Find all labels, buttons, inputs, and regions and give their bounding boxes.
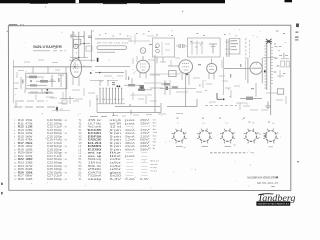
svg-text:25uFp: 25uFp	[54, 130, 63, 132]
svg-text:4 l B a L 8 a 3: 4 l B a L 8 a 3	[96, 99, 126, 101]
svg-text:100np: 100np	[54, 123, 63, 125]
knob P1 pointer	[176, 145, 183, 147]
left margin registration ticks	[1, 183, 2, 185]
svg-text:Omk: Omk	[153, 132, 158, 134]
knob P5 pointer wedge	[263, 134, 266, 138]
svg-text:½W: ½W	[63, 170, 67, 174]
svg-text:-: -	[125, 176, 137, 178]
IF transformer T1 box	[153, 38, 175, 57]
svg-text:2mA: 2mA	[125, 145, 135, 148]
svg-text:½W: ½W	[63, 157, 67, 161]
svg-text:V5: V5	[79, 143, 83, 145]
svg-text:47nFp: 47nFp	[54, 140, 63, 142]
capacitor C9 (dark)	[140, 85, 145, 91]
junction node dark	[90, 72, 92, 74]
svg-text:Mrk: Mrk	[153, 141, 157, 144]
speck above frame	[182, 11, 183, 12]
svg-text:9mA: 9mA	[125, 135, 135, 138]
tube V4 pins	[208, 73, 210, 79]
svg-text:20mA: 20mA	[125, 129, 135, 132]
svg-text:V3: V3	[79, 136, 83, 138]
resistor R13	[138, 89, 145, 91]
svg-text:500pp: 500pp	[54, 163, 63, 165]
svg-text:4: 4	[148, 129, 150, 131]
svg-text:ma 0-2: ma 0-2	[150, 170, 157, 172]
svg-text:1k5B: 1k5B	[25, 149, 33, 151]
svg-text:L4: L4	[79, 156, 82, 158]
svg-text:V4: V4	[79, 140, 83, 142]
svg-text:9 pin: 9 pin	[110, 136, 123, 138]
svg-text:10nFp: 10nFp	[54, 166, 63, 168]
dashes right of star	[275, 46, 278, 48]
svg-text:500np: 500np	[54, 133, 63, 135]
IF transformer T2 box	[188, 38, 221, 57]
svg-text:Dis: Dis	[153, 126, 156, 128]
resistor R16	[164, 83, 170, 85]
svg-text:8uFpp: 8uFpp	[54, 146, 63, 148]
svg-text:V2: V2	[79, 133, 83, 135]
band switch S1 contacts	[99, 89, 101, 104]
right page-edge marks	[296, 24, 299, 28]
svg-text:12 st: 12 st	[110, 126, 122, 129]
junction node	[84, 43, 85, 44]
svg-text:150k: 150k	[25, 120, 33, 122]
svg-text:R18: R18	[18, 146, 25, 148]
svg-text:R11: R11	[18, 123, 25, 125]
resistor R12	[128, 84, 135, 86]
drawing border frame	[8, 25, 290, 190]
knob P4 side mark	[259, 133, 262, 135]
wire segment	[167, 106, 197, 108]
svg-text:9 pin: 9 pin	[110, 149, 123, 151]
extra left clutter	[24, 61, 30, 63]
box A output leads	[156, 57, 158, 64]
svg-text:-: -	[125, 153, 137, 155]
svg-text:12kB: 12kB	[25, 179, 33, 181]
junction node E	[46, 92, 48, 94]
antenna coil L1 cluster	[72, 31, 74, 62]
svg-text:R21: R21	[18, 156, 25, 158]
heater wire	[236, 102, 247, 104]
tube V5 envelope	[250, 62, 262, 74]
wire segment	[130, 94, 152, 96]
knob P2 (bass)	[199, 131, 210, 142]
svg-text:0,1uF: 0,1uF	[54, 127, 63, 129]
svg-text:-: -	[125, 172, 137, 174]
tube V3 envelope	[179, 60, 193, 74]
svg-text:6: 6	[148, 135, 150, 137]
scan speckle	[77, 114, 80, 117]
title underline	[33, 50, 50, 52]
svg-text:½W: ½W	[63, 164, 67, 168]
tube V1 grid dashes	[73, 64, 79, 66]
svg-text:9 pin: 9 pin	[110, 146, 123, 148]
dashed box with text (right)	[229, 39, 240, 55]
caps mid	[112, 82, 115, 83]
svg-text:3: 3	[14, 127, 16, 129]
svg-text:7: 7	[14, 140, 16, 142]
grid coupling wires left	[18, 70, 24, 72]
tube V1 pins	[72, 77, 74, 85]
svg-text:6,3V: 6,3V	[140, 179, 149, 181]
resistor R5	[30, 84, 37, 86]
svg-text:R22: R22	[18, 159, 25, 161]
bus wire (heater rail)	[95, 65, 130, 67]
svg-text:88 92 96 100 104: 88 92 96 100 104	[97, 43, 130, 45]
svg-text:½W: ½W	[63, 125, 67, 129]
wire through V5	[224, 68, 250, 70]
tube V5 anode bar	[252, 67, 262, 69]
shield box (dashed)	[26, 73, 67, 89]
svg-text:8: 8	[14, 143, 16, 145]
svg-text:u/br: u/br	[110, 162, 122, 165]
mains transformer boxes	[281, 61, 285, 67]
svg-text:-: -	[140, 172, 151, 174]
svg-text:½W: ½W	[63, 131, 67, 135]
svg-text:L1: L1	[79, 146, 82, 148]
chassis centre tick	[113, 113, 115, 116]
dashed vertical wire 2	[248, 40, 250, 58]
svg-text:220k: 220k	[25, 156, 33, 158]
svg-text:16: 16	[14, 169, 17, 171]
svg-text:4: 4	[14, 129, 16, 132]
svg-text:1,2mA: 1,2mA	[125, 139, 135, 142]
svg-text:Avs: Avs	[153, 128, 156, 131]
knob P5 top mark	[268, 122, 270, 123]
screen vertical	[223, 57, 225, 95]
svg-text:1M8W: 1M8W	[25, 159, 33, 161]
svg-text:P2: P2	[79, 163, 83, 165]
svg-text:P3: P3	[79, 166, 83, 168]
dial glass lower line	[97, 51, 115, 53]
tube V3 electrodes	[182, 63, 189, 65]
svg-text:1·:: 1·:	[177, 123, 180, 125]
chassis bus	[97, 112, 161, 114]
svg-text:L2: L2	[79, 149, 82, 151]
svg-text:R20: R20	[18, 153, 25, 155]
cathode resistor marks	[22, 80, 24, 84]
svg-text:D1: D1	[79, 172, 83, 174]
corner bracket (dark)	[216, 93, 218, 99]
svg-text:Merk 1-4: Merk 1-4	[150, 160, 159, 163]
svg-text:11: 11	[14, 153, 16, 155]
ground symbol	[267, 102, 269, 107]
svg-text:6,3V: 6,3V	[110, 179, 123, 181]
junction node B	[30, 80, 32, 82]
svg-text:Av: Av	[153, 147, 156, 150]
band switch wiper dots	[99, 88, 100, 89]
svg-text:1,2M: 1,2M	[25, 127, 32, 129]
trimmer capacitor C1	[74, 44, 79, 49]
dial glass (rounded box)	[97, 46, 127, 50]
svg-text:Kan: Kan	[153, 135, 158, 137]
psu dashes	[275, 58, 278, 59]
svg-text:just: just	[123, 155, 136, 158]
wire segment	[250, 109, 258, 111]
svg-text:0,3A: 0,3A	[125, 178, 135, 181]
svg-text:48mA: 48mA	[125, 142, 135, 145]
svg-text:Fin: Fin	[153, 145, 157, 147]
svg-text:13: 13	[14, 159, 17, 161]
tube V2 electrodes	[140, 63, 146, 65]
dash row upper	[17, 100, 24, 102]
svg-text:9 pin: 9 pin	[110, 133, 123, 135]
wire mesh	[160, 88, 196, 90]
svg-text:1: 1	[14, 120, 15, 122]
svg-text:100k: 100k	[25, 133, 33, 135]
svg-text:-: -	[140, 156, 151, 158]
svg-text:150pp: 150pp	[54, 169, 63, 171]
ground bus dashes	[14, 106, 22, 108]
svg-text:P4: P4	[79, 169, 83, 171]
resistor R3	[29, 76, 37, 79]
speck row top right	[276, 31, 278, 32]
svg-text:u/br: u/br	[110, 168, 122, 171]
svg-text:5: 5	[148, 132, 150, 134]
svg-text:25pFp: 25pFp	[54, 172, 63, 174]
wires right-mid extra	[193, 77, 200, 79]
title block dark dot	[276, 177, 277, 178]
svg-text:NR 58–203–07: NR 58–203–07	[257, 183, 280, 185]
svg-text:300pp: 300pp	[54, 153, 63, 155]
T2 antenna symbol	[212, 44, 214, 54]
T2 inner specks	[191, 41, 193, 42]
svg-text:5: 5	[14, 133, 16, 135]
svg-text:-: -	[125, 166, 137, 168]
screen dashes	[222, 80, 228, 82]
svg-text:½W: ½W	[63, 151, 67, 155]
pilot lamp	[140, 48, 146, 54]
svg-text:R24: R24	[18, 166, 25, 168]
wire bottom right	[263, 57, 276, 59]
svg-text:just: just	[123, 119, 136, 122]
svg-text:R27: R27	[18, 176, 25, 178]
screen wire	[150, 87, 163, 89]
svg-text:½W: ½W	[63, 138, 67, 142]
chassis dash extension	[205, 105, 237, 107]
svg-text:2M2k: 2M2k	[25, 143, 33, 145]
svg-text:9 pin: 9 pin	[110, 143, 123, 145]
svg-text:R14: R14	[18, 133, 25, 135]
dark switch tick	[97, 58, 99, 62]
svg-text:Vol: Vol	[153, 119, 156, 121]
svg-text:1·7: 1·7	[225, 123, 229, 125]
svg-text:10: 10	[14, 149, 17, 151]
svg-text:1: 1	[148, 119, 150, 121]
svg-text:R26: R26	[18, 172, 25, 174]
T1 coils	[156, 44, 160, 48]
dashes above parts list	[90, 116, 98, 118]
svg-text:5x20: 5x20	[110, 176, 123, 178]
svg-text:2: 2	[13, 123, 16, 125]
svg-text:82kB: 82kB	[25, 169, 33, 171]
svg-text:R12: R12	[18, 127, 25, 129]
svg-text:SALGSNR 5614–VEKSELSTRØM: SALGSNR 5614–VEKSELSTRØM	[247, 175, 278, 179]
svg-text:47Bk: 47Bk	[25, 140, 33, 142]
svg-text:8: 8	[148, 142, 150, 144]
svg-text:-: -	[125, 127, 137, 129]
tube V4 electrodes	[209, 66, 214, 68]
svg-text:0,1uF: 0,1uF	[54, 156, 63, 158]
svg-text:9: 9	[148, 145, 150, 147]
svg-text:½W: ½W	[63, 177, 67, 181]
svg-text:F1: F1	[79, 176, 82, 178]
svg-text:R17: R17	[18, 143, 25, 145]
svg-text:½W: ½W	[63, 144, 67, 148]
svg-text:R28: R28	[18, 179, 25, 181]
dial lamp wire	[95, 38, 130, 40]
svg-text:10: 10	[148, 148, 151, 150]
svg-text:1·1: 1·1	[202, 123, 206, 125]
svg-text:R25: R25	[18, 169, 25, 171]
electrolytic ladder C21	[270, 44, 272, 115]
svg-text:R10: R10	[18, 120, 25, 122]
knob P2 pointer	[202, 145, 209, 147]
wire y83	[144, 82, 167, 84]
wire below box	[28, 92, 54, 94]
wire in box	[58, 74, 64, 76]
resistor R22	[240, 97, 262, 99]
svg-text:22Bk: 22Bk	[25, 130, 33, 132]
svg-text:56kW: 56kW	[25, 153, 33, 155]
svg-text:prim 2k: prim 2k	[110, 119, 123, 122]
anode wire V3	[185, 73, 187, 106]
specks above T2	[197, 33, 199, 34]
knob P3 pointer	[225, 145, 232, 147]
svg-text:10kW: 10kW	[25, 146, 33, 148]
svg-text:se skje: se skje	[150, 167, 157, 169]
IF box B internal windings	[191, 41, 193, 55]
knob P3 (treble)	[222, 131, 233, 142]
knob upper label specks	[177, 118, 179, 119]
svg-text:68kW: 68kW	[25, 176, 33, 178]
speaker coupling box	[277, 89, 283, 94]
dial area specks	[99, 35, 101, 36]
svg-text:9 pin: 9 pin	[110, 130, 123, 132]
svg-text:9 pin: 9 pin	[110, 140, 123, 142]
knob P4 (tuning)	[246, 131, 257, 142]
svg-text:SØLVSUPER: SØLVSUPER	[33, 45, 63, 49]
specks	[199, 85, 201, 86]
svg-text:over alt: over alt	[150, 163, 157, 166]
svg-text:18: 18	[14, 176, 17, 178]
junction node D	[264, 70, 266, 72]
wire drop	[65, 67, 67, 99]
svg-text:litz: litz	[110, 155, 125, 158]
svg-text:T1: T1	[79, 120, 82, 122]
tube V2 envelope	[137, 60, 150, 73]
svg-text:T2: T2	[79, 123, 82, 125]
svg-text:V1: V1	[79, 130, 83, 132]
misc component marks	[198, 64, 201, 65]
logo black banner	[256, 201, 290, 205]
wire stub left	[13, 60, 15, 103]
svg-text:12: 12	[14, 156, 17, 158]
grid bracket above V1	[71, 36, 84, 38]
capacitor C4	[51, 75, 53, 80]
bus wire (AVC rail)	[95, 72, 124, 74]
svg-text:skala: skala	[88, 178, 103, 181]
svg-text:7: 7	[148, 139, 150, 141]
title block dash	[271, 185, 274, 187]
svg-text:X1: X1	[79, 179, 83, 181]
AF coupling cluster	[60, 98, 74, 100]
transformer T3 box	[169, 71, 176, 77]
svg-text:R23: R23	[18, 163, 25, 165]
svg-text:sek 3R: sek 3R	[110, 123, 122, 125]
dial cord marks	[130, 36, 132, 42]
electrolytic ladder C20	[266, 44, 268, 90]
alignment dashed line	[210, 152, 248, 154]
svg-text:1000p: 1000p	[54, 136, 63, 138]
svg-text:R13: R13	[18, 130, 25, 132]
svg-text:½W: ½W	[63, 118, 67, 122]
svg-text:400pp: 400pp	[54, 179, 63, 181]
heater line mid	[150, 73, 180, 75]
svg-text:33kB: 33kB	[25, 163, 33, 165]
svg-text:-: -	[125, 163, 137, 165]
svg-text:S1: S1	[79, 127, 83, 129]
svg-text:3: 3	[148, 126, 150, 128]
IF wire bottom	[115, 106, 160, 108]
wire y80	[90, 80, 104, 82]
page top-right edge mark	[285, 0, 293, 2]
svg-text:m/br: m/br	[110, 165, 122, 168]
oscillator coil bars	[226, 39, 228, 57]
svg-text:2: 2	[148, 123, 150, 125]
svg-text:5k6W: 5k6W	[25, 136, 33, 138]
junction node A	[74, 66, 76, 68]
svg-text:470k: 470k	[25, 123, 33, 125]
svg-text:0,2uF: 0,2uF	[54, 176, 63, 178]
specks above T1	[156, 34, 158, 37]
wire to V3	[168, 65, 179, 67]
svg-text:6: 6	[14, 136, 16, 138]
wires upper mid	[132, 58, 134, 64]
band switch dark contacts	[116, 85, 118, 87]
svg-text:P1: P1	[79, 159, 83, 161]
svg-text:17: 17	[14, 172, 17, 174]
dark cap C14	[166, 87, 168, 90]
bus wire (HT rail)	[13, 66, 92, 68]
resistor R4	[40, 80, 48, 83]
svg-text:-: -	[140, 127, 151, 129]
page top edge strip (scan artifact)	[0, 0, 225, 3]
svg-text:15: 15	[14, 166, 17, 168]
svg-text:5000p: 5000p	[54, 120, 63, 122]
tube V3 cathode dot	[186, 74, 188, 76]
wire from coil to V1	[74, 62, 76, 65]
resistor R17	[172, 86, 178, 88]
rectifier star (dark)	[266, 39, 272, 44]
svg-text:glass: glass	[110, 172, 123, 174]
svg-text:200np: 200np	[54, 149, 63, 151]
tube V4 envelope	[207, 63, 217, 73]
svg-text:60mA: 60mA	[125, 148, 135, 151]
wire v	[255, 83, 257, 97]
wires mid section 2	[104, 75, 112, 77]
tube V3 pins	[181, 73, 183, 81]
svg-text:19: 19	[14, 179, 17, 181]
dashed vertical wire	[245, 38, 247, 60]
svg-text:4k7W: 4k7W	[25, 166, 33, 168]
svg-text:Bas: Bas	[153, 123, 157, 125]
svg-text:2:: 2:	[247, 104, 249, 106]
knob P5 (band selector)	[265, 131, 276, 142]
svg-text:0,5uF: 0,5uF	[54, 143, 63, 145]
svg-text:litz: litz	[110, 152, 125, 155]
svg-text:just: just	[123, 122, 136, 125]
